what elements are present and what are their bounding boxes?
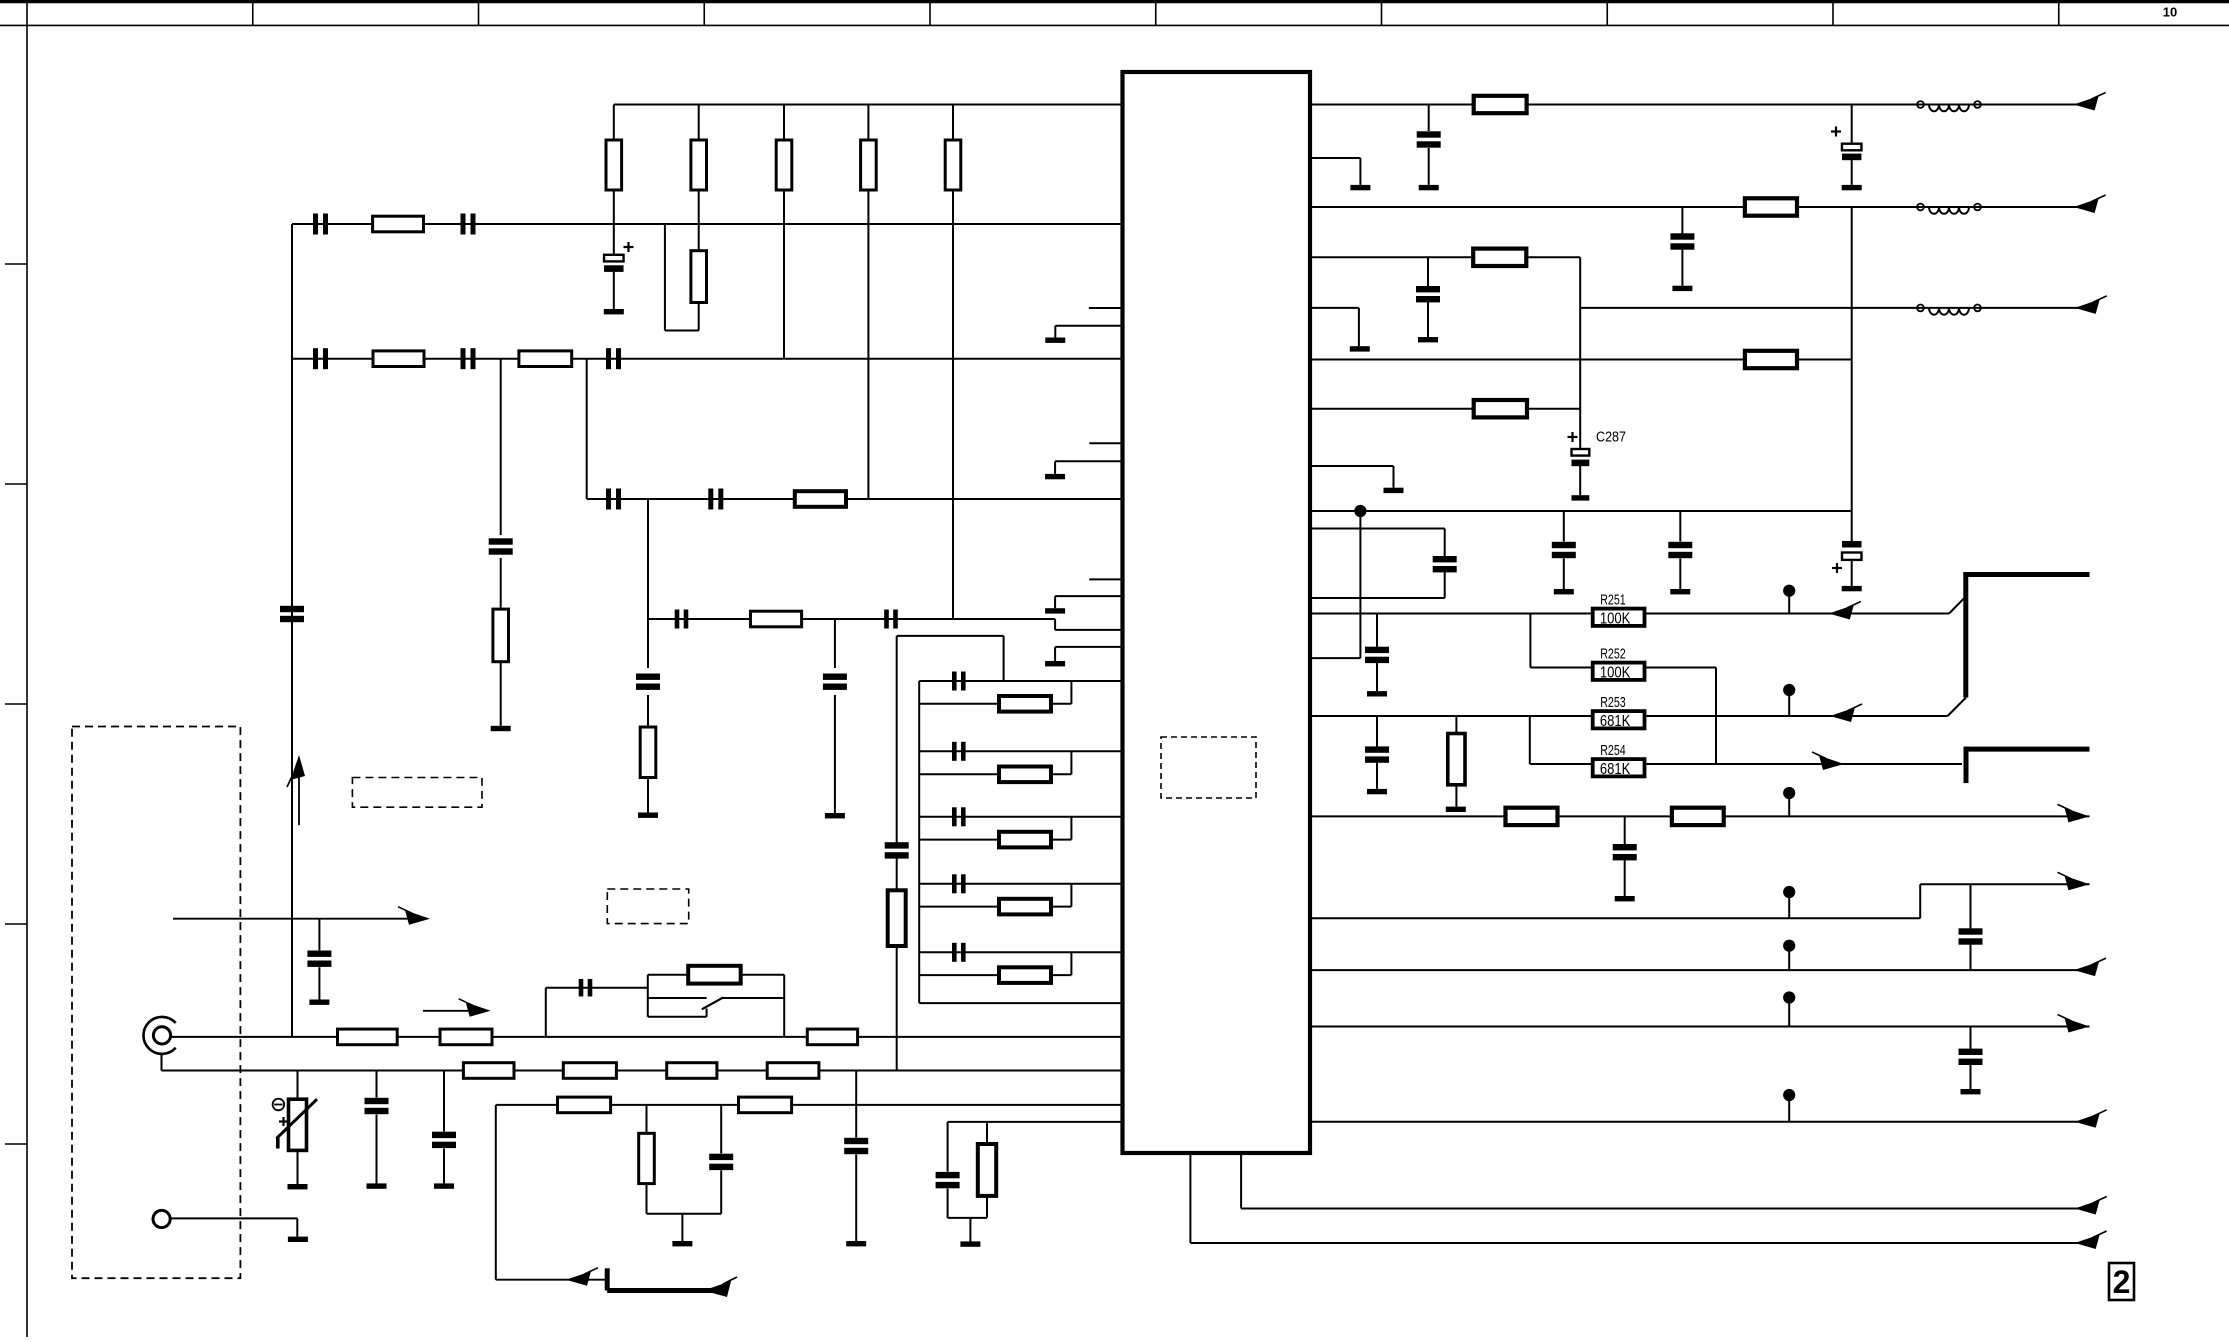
ground C101 xyxy=(604,309,624,314)
sheet number box xyxy=(2109,1263,2134,1300)
wire line M xyxy=(496,1104,1123,1106)
ground C132 xyxy=(309,1000,329,1005)
ground stub nc6 xyxy=(1045,661,1065,666)
connector J2 circle xyxy=(153,1210,170,1227)
arrow line11 xyxy=(2075,1235,2100,1250)
thermistor RT1 minus symbol xyxy=(273,1099,285,1111)
wire lattice row 1 xyxy=(919,680,1122,682)
capacitor C209 xyxy=(1376,614,1378,648)
IC U1 internal dashed box xyxy=(1161,737,1256,798)
wire line11 xyxy=(1189,1153,1191,1243)
wire line J1 signal xyxy=(171,1036,1123,1038)
border frame top ticks xyxy=(252,0,254,25)
wire line5 xyxy=(1310,815,2090,817)
wire lattice left bus xyxy=(918,681,920,1003)
ground stub right 1 xyxy=(1350,185,1370,190)
junction dot col 7 xyxy=(1783,1089,1795,1101)
resistor R114 xyxy=(519,351,572,367)
svg-text:100K: 100K xyxy=(1600,664,1631,681)
capacitor C107 series xyxy=(606,348,611,369)
switch S1 lower contact xyxy=(648,1016,707,1018)
wire loop bottom xyxy=(1310,597,1445,599)
border frame top inner line xyxy=(0,24,2229,26)
resistor R141 xyxy=(986,1122,988,1144)
wire R105 lead to line D xyxy=(952,224,954,619)
capacitor C102 series xyxy=(313,214,318,235)
capacitor C213 xyxy=(1970,1027,1972,1050)
IC stub right 2 xyxy=(1310,307,1359,309)
arrow R253 xyxy=(1830,708,1855,723)
capacitor C136 xyxy=(947,1122,949,1172)
ground C202 xyxy=(1842,185,1862,190)
IC pin stub nc0 xyxy=(1089,307,1123,309)
thick bracket upper xyxy=(1965,572,2090,577)
resistor R107 xyxy=(373,216,424,232)
ground RC stem xyxy=(969,1218,971,1242)
ground C209 xyxy=(1367,691,1387,696)
junction line4 xyxy=(1354,505,1366,517)
capacitor C101 plus sign xyxy=(624,246,634,248)
wire line1 xyxy=(1310,104,2092,106)
wire lattice row 2 xyxy=(919,750,1122,752)
ground C211 xyxy=(1615,896,1635,901)
wire line B xyxy=(292,358,1123,360)
resistor R206 xyxy=(1672,808,1724,825)
wire J1 shield lead xyxy=(161,1054,163,1071)
capacitor C132 xyxy=(318,919,320,951)
wire R253 diagonal xyxy=(1948,698,1966,717)
resistor R106 xyxy=(698,224,700,251)
wire line4b xyxy=(1310,408,1580,410)
arrow R251 xyxy=(1829,605,1854,620)
border frame left line xyxy=(26,0,28,1337)
svg-text:681K: 681K xyxy=(1600,713,1631,730)
wire lattice row 5 xyxy=(919,951,1122,953)
ground C135 xyxy=(846,1241,866,1246)
capacitor C207 xyxy=(1563,511,1565,542)
wire loop top xyxy=(1310,528,1445,530)
resistor R251 box xyxy=(1593,609,1645,626)
resistor R136 xyxy=(767,1063,819,1079)
capacitor C114 series xyxy=(885,842,909,848)
resistor R109 xyxy=(500,558,502,609)
wire line3 down xyxy=(1579,257,1581,408)
wire J2 xyxy=(170,1217,297,1219)
IC pin stub nc5 xyxy=(1055,595,1122,597)
ground C208 xyxy=(1670,589,1690,594)
wire cap line to bus xyxy=(545,988,547,1037)
ground R109 xyxy=(491,726,511,731)
IC U1 main block xyxy=(1123,72,1311,1153)
capacitor C212 series xyxy=(1970,884,1972,929)
ground stub nc1 xyxy=(1045,338,1065,343)
ground C287 xyxy=(1572,495,1590,500)
wire RC box bottom xyxy=(948,1217,987,1219)
resistor R122 xyxy=(919,839,999,841)
wire line D step to IC xyxy=(1054,619,1056,630)
ground RC bar xyxy=(960,1241,980,1246)
resistor R112 xyxy=(647,695,649,727)
wire subcircuit left vertical xyxy=(896,636,898,844)
resistor R134 xyxy=(563,1063,616,1079)
arrow bottom left xyxy=(566,1271,591,1286)
resistor R202 xyxy=(1745,198,1797,215)
thermistor RT1 arrow xyxy=(277,1099,318,1138)
wire lattice row 4 xyxy=(919,883,1122,885)
wire switch loop right xyxy=(783,975,785,1037)
svg-text:10: 10 xyxy=(2163,5,2177,20)
wire switch loop left xyxy=(647,975,649,1017)
capacitor C202 plus xyxy=(1831,130,1841,132)
IC pin stub nc4 xyxy=(1089,578,1122,580)
resistor R203 xyxy=(1473,249,1526,266)
capacitor C111 series xyxy=(884,610,889,629)
resistor R254 box xyxy=(1593,759,1645,776)
resistor R133 xyxy=(463,1063,514,1079)
IC pin stub nc2 xyxy=(1089,442,1122,444)
inductor L3 xyxy=(1917,305,1924,312)
arrow line9 xyxy=(2075,1113,2100,1128)
junction dot col 4 xyxy=(1783,886,1795,898)
capacitor C210 xyxy=(1376,716,1378,747)
wire cap line xyxy=(546,987,648,989)
resistor R252 box xyxy=(1593,663,1645,680)
ground C210 xyxy=(1367,789,1387,794)
wire line10 xyxy=(1240,1153,1242,1209)
IC stub right 1 xyxy=(1310,157,1360,159)
resistor R111 xyxy=(751,611,802,627)
resistor R131 xyxy=(440,1029,492,1045)
resistor R140 xyxy=(646,1105,648,1133)
wire annotation line 1 xyxy=(173,918,421,920)
wire R103 lead to line B xyxy=(783,224,785,359)
capacitor C106 series xyxy=(461,348,466,369)
svg-text:R252: R252 xyxy=(1600,645,1626,662)
wire R254 out xyxy=(1645,763,1963,765)
capacitor C287 plus xyxy=(1568,436,1578,438)
capacitor C133 series xyxy=(579,979,584,997)
wire line4 up xyxy=(1851,207,1853,511)
border frame left ticks xyxy=(5,263,27,265)
wire junction drop xyxy=(1359,511,1361,658)
resistor R204 xyxy=(1474,400,1527,417)
capacitor C101 electrolytic xyxy=(613,224,615,255)
wire R140 C134 link xyxy=(647,1213,722,1215)
ground RT1 xyxy=(288,1184,308,1189)
wire line8 xyxy=(1310,1026,2090,1028)
wire subcircuit top xyxy=(897,635,1004,637)
wire line2b xyxy=(1580,307,2092,309)
svg-text:2: 2 xyxy=(2113,1264,2131,1300)
annotation arrow 2 xyxy=(423,1010,481,1012)
switch S1 contact xyxy=(648,997,707,999)
ground stub nc5 xyxy=(1045,608,1065,613)
capacitor C124 series xyxy=(952,943,957,962)
thermistor RT1 xyxy=(297,1071,299,1100)
arrow line7 xyxy=(2074,962,2099,977)
junction dot col 3 xyxy=(1783,787,1795,799)
capacitor C203 xyxy=(1681,207,1683,234)
ground stub right 3 xyxy=(1384,488,1404,493)
capacitor C135 xyxy=(855,1071,857,1138)
capacitor C122 series xyxy=(952,807,957,826)
svg-text:681K: 681K xyxy=(1600,761,1631,778)
resistor R123 xyxy=(919,906,999,908)
resistor R113 xyxy=(896,858,898,891)
capacitor C287 electrolytic xyxy=(1579,409,1581,449)
capacitor C206 electrolytic xyxy=(1851,511,1853,541)
resistor R130 xyxy=(338,1029,398,1045)
svg-text:R253: R253 xyxy=(1600,694,1626,711)
ground stub right 2 xyxy=(1350,346,1370,351)
wire RC box top xyxy=(948,1121,1123,1123)
ground C113 xyxy=(825,813,845,818)
resistor R253 box xyxy=(1593,711,1645,728)
wire line3b xyxy=(1310,359,1852,361)
resistor bank R103 xyxy=(783,105,785,141)
wire R106 loop xyxy=(665,330,699,332)
arrow line2b xyxy=(2075,299,2100,314)
dashed label box B xyxy=(607,889,688,924)
capacitor C112 xyxy=(647,619,649,668)
wire line6 xyxy=(1310,917,1920,919)
arrow line2 xyxy=(2074,199,2099,214)
capacitor C131 xyxy=(443,1071,445,1132)
capacitor C121 series xyxy=(952,742,957,761)
junction dot col 1 xyxy=(1783,585,1795,597)
thick bracket bottom xyxy=(605,1268,610,1290)
wire line J1 shield xyxy=(162,1070,1123,1072)
ground C207 xyxy=(1554,589,1574,594)
IC stub right 3 xyxy=(1310,465,1394,467)
capacitor C201 xyxy=(1428,105,1430,132)
wire lattice bottom row xyxy=(919,1002,1122,1004)
dashed enclosure box xyxy=(72,727,240,1279)
wire line M drop xyxy=(495,1105,497,1280)
wire line9 xyxy=(1310,1121,2092,1123)
resistor R207 xyxy=(1506,808,1558,825)
IC pin stub nc6 xyxy=(1055,646,1122,648)
wire R252 out xyxy=(1645,667,1717,669)
connector J1 inner circle xyxy=(153,1027,170,1044)
ground C203 xyxy=(1672,286,1692,291)
capacitor C204 xyxy=(1427,257,1429,286)
ground link stem xyxy=(681,1214,683,1241)
arrow line6 xyxy=(2065,876,2090,891)
wire line3 xyxy=(1310,256,1580,258)
resistor R108 xyxy=(373,351,424,367)
wire line4 xyxy=(1310,510,1852,512)
ground C131 xyxy=(434,1183,454,1188)
resistor R138 xyxy=(558,1097,611,1113)
ground C130 xyxy=(367,1183,387,1188)
resistor R201 xyxy=(1474,96,1527,113)
capacitor C115 series xyxy=(708,489,713,510)
ground C206 xyxy=(1842,586,1862,591)
junction dot col 2 xyxy=(1783,684,1795,696)
wire line A xyxy=(292,223,1123,225)
inductor L1 xyxy=(1917,101,1924,108)
wire top bus xyxy=(614,104,1123,106)
dashed label box A xyxy=(352,778,482,808)
resistor R110 xyxy=(795,491,846,507)
thermistor RT1 plus xyxy=(279,1120,288,1122)
capacitor C104 series in left bus xyxy=(280,606,304,612)
wire line C xyxy=(587,498,1123,500)
capacitor C109 series xyxy=(606,489,611,510)
resistor bank R102 xyxy=(698,105,700,141)
annotation arrow up xyxy=(298,766,300,825)
capacitor C113 xyxy=(834,619,836,668)
resistor bank R105 xyxy=(952,105,954,141)
arrow line8 xyxy=(2065,1018,2090,1033)
IC pin stub nc3 xyxy=(1055,460,1122,462)
capacitor C108 xyxy=(500,359,502,535)
capacitor C120 series xyxy=(952,672,957,691)
arrow R254 xyxy=(1819,756,1844,771)
wire bottom return xyxy=(496,1279,607,1281)
resistor R137 xyxy=(688,966,741,984)
wire R251 diagonal xyxy=(1949,598,1964,613)
ground C213 xyxy=(1961,1089,1981,1094)
ground C201 xyxy=(1419,185,1439,190)
wire line R253 xyxy=(1310,715,1948,717)
svg-text:100K: 100K xyxy=(1600,610,1631,627)
resistor R121 xyxy=(919,773,999,775)
switch S1 hook xyxy=(706,1009,708,1017)
resistor R120 xyxy=(919,703,999,705)
switch S1 throw xyxy=(722,997,784,999)
ground C204 xyxy=(1418,337,1438,342)
wire switch loop top xyxy=(648,974,784,976)
wire line D xyxy=(648,618,1055,620)
capacitor C205 series xyxy=(1444,529,1446,557)
arrow bottom right xyxy=(703,1281,731,1297)
connector J1 outer ring xyxy=(143,1017,175,1054)
junction dot col 5 xyxy=(1783,940,1795,952)
capacitor C130 xyxy=(376,1071,378,1098)
resistor bank R104 xyxy=(867,105,869,141)
wire line C to D xyxy=(647,499,649,619)
wire line R251 xyxy=(1310,613,1949,615)
resistor R135 xyxy=(667,1063,717,1079)
resistor R124 xyxy=(919,974,999,976)
inductor L2 xyxy=(1917,204,1924,211)
wire line B to C xyxy=(586,359,588,499)
IC pin stub nc1 xyxy=(1055,325,1122,327)
switch S1 blade xyxy=(702,997,724,1009)
ground stub nc3 xyxy=(1045,474,1065,479)
wire left bus vertical xyxy=(291,224,293,1037)
ground R112 xyxy=(638,813,658,818)
capacitor C123 series xyxy=(952,874,957,893)
wire R254 feed xyxy=(1529,716,1531,764)
resistor R205 xyxy=(1455,716,1457,734)
wire lattice row 3 xyxy=(919,816,1122,818)
arrow line1 xyxy=(2074,96,2099,111)
arrow line10 xyxy=(2075,1200,2100,1215)
ground link bar xyxy=(672,1241,692,1246)
capacitor C105 series xyxy=(313,348,318,369)
resistor R139 xyxy=(739,1097,792,1113)
capacitor C211 xyxy=(1624,816,1626,844)
capacitor C206 plus xyxy=(1832,567,1842,569)
thick bracket lower xyxy=(1965,747,2090,752)
svg-text:C287: C287 xyxy=(1596,429,1626,446)
svg-text:R254: R254 xyxy=(1600,742,1626,759)
arrow line5 xyxy=(2065,808,2090,823)
resistor R132 xyxy=(807,1029,857,1045)
capacitor C103 series xyxy=(461,214,466,235)
wire R104 lead to line C xyxy=(867,224,869,499)
capacitor C110 series xyxy=(675,610,680,629)
wire R252 feed xyxy=(1529,614,1531,668)
capacitor C208 xyxy=(1679,511,1681,542)
wire line2 xyxy=(1310,206,2092,208)
ground R205 xyxy=(1446,807,1466,812)
resistor bank R101 xyxy=(613,105,615,141)
resistor R208 xyxy=(1745,351,1797,368)
border frame top thick line xyxy=(0,0,2229,3)
junction dot col 6 xyxy=(1783,991,1795,1003)
ground J2 xyxy=(288,1237,308,1242)
wire line7 xyxy=(1310,969,2092,971)
svg-text:R251: R251 xyxy=(1600,591,1626,608)
capacitor C134 xyxy=(720,1170,722,1213)
capacitor C202 electrolytic xyxy=(1851,105,1853,144)
